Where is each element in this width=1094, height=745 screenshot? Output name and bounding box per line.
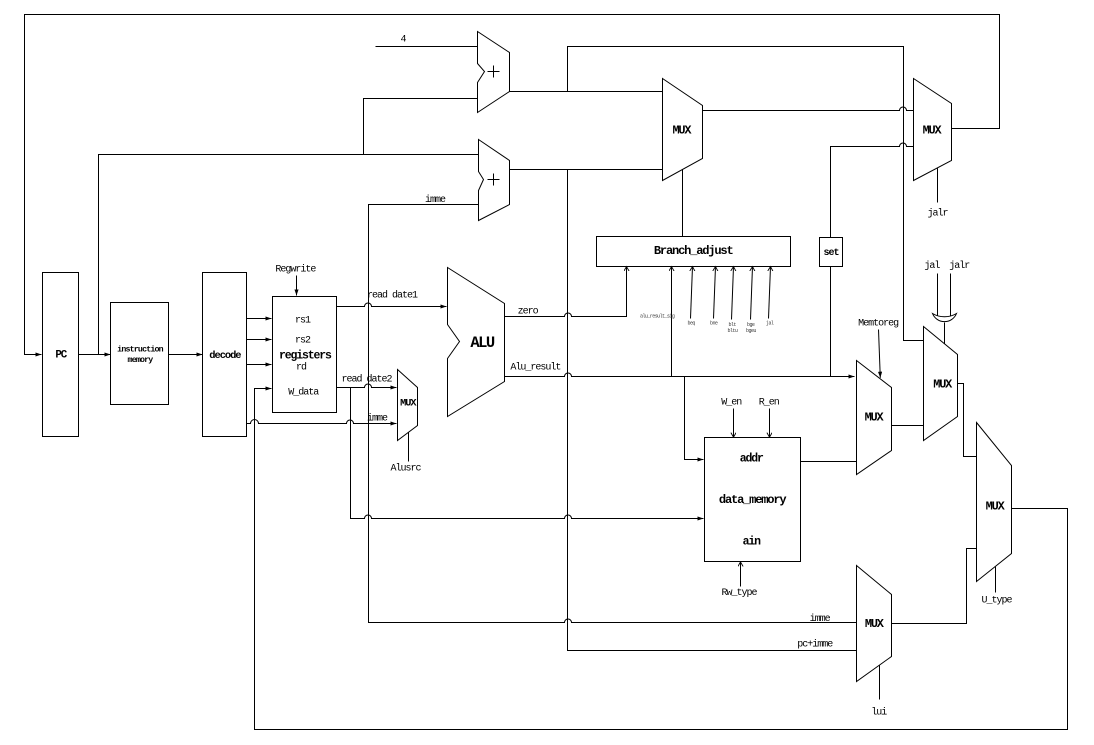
mux ALUsrc: [398, 370, 418, 441]
svg-text:data_memory: data_memory: [719, 493, 787, 507]
svg-text:Rw_type: Rw_type: [722, 588, 758, 599]
wire pc branch to adder A1 input: [364, 99, 478, 155]
svg-text:Regwrite: Regwrite: [275, 264, 316, 276]
wire R_en into data_memory: [769, 409, 771, 438]
svg-text:W_data: W_data: [288, 387, 319, 399]
adder A1 pc+4: [478, 32, 510, 113]
svg-text:jal: jal: [766, 321, 774, 327]
svg-text:Alu_result: Alu_result: [510, 361, 560, 373]
svg-text:Alusrc: Alusrc: [391, 463, 422, 475]
wire jal leader: [937, 274, 939, 317]
wire read date2 tap down to data_memory ain: [351, 388, 704, 519]
svg-text:Branch_adjust: Branch_adjust: [654, 244, 734, 258]
svg-text:memory: memory: [128, 356, 154, 365]
svg-text:MUX: MUX: [933, 378, 953, 392]
wire jalr leader: [950, 274, 952, 317]
mux M2 branch-target: [663, 79, 703, 181]
wire Alusrc select leader: [408, 433, 410, 462]
wire mux M5 output to mux M6: [958, 384, 977, 457]
wire mux M2 select from Branch_adjust: [682, 170, 684, 237]
wire Rw_type into data_memory: [740, 562, 742, 587]
wire pc tap up to adder A2 input: [99, 155, 479, 355]
wire bne into Branch_adjust: [714, 267, 716, 319]
mux M4 Memtoreg: [857, 361, 892, 475]
wire Memtoreg select arrow: [879, 330, 881, 378]
wire U_type select leader: [995, 567, 997, 593]
wire imme from decode to mux ALUsrc: [247, 420, 397, 424]
wire set box down to Alu_result line: [830, 267, 832, 377]
wire W_en into data_memory: [733, 409, 735, 438]
svg-text:rs1: rs1: [295, 315, 311, 326]
wire decode to rd: [247, 364, 272, 366]
svg-text:bne: bne: [710, 321, 718, 327]
svg-text:Memtoreg: Memtoreg: [858, 319, 899, 330]
svg-text:MUX: MUX: [986, 500, 1006, 514]
svg-text:registers: registers: [279, 349, 332, 362]
wire mux M4 output to mux M5: [892, 425, 924, 427]
box PC: [43, 273, 79, 437]
box data_memory: [705, 438, 801, 562]
plus sign A2: [488, 174, 500, 186]
svg-text:rs2: rs2: [295, 336, 311, 347]
wire lui mux output to mux M6: [892, 549, 977, 624]
svg-text:imme: imme: [425, 194, 446, 206]
svg-text:pc+imme: pc+imme: [797, 639, 833, 651]
wire data_memory output to mux M4: [801, 461, 857, 463]
wire jalr-mux output wrap to PC input: [25, 15, 1000, 355]
mux M7 lui: [857, 566, 892, 682]
svg-text:decode: decode: [209, 350, 241, 362]
svg-text:read date2: read date2: [342, 373, 393, 385]
wire pc+imme drop to lui mux M7: [568, 170, 857, 651]
svg-text:zero: zero: [518, 306, 539, 317]
mux M6 U_type: [977, 423, 1012, 582]
svg-text:MUX: MUX: [865, 411, 885, 425]
wire decode to rs1: [247, 318, 272, 320]
wire Alu_result tap down to data_memory addr: [685, 377, 704, 460]
svg-text:jal: jal: [924, 260, 940, 272]
svg-text:set: set: [823, 248, 839, 259]
wire alu_result_sig up to Branch_adjust: [671, 267, 673, 377]
wire zero from ALU to Branch_adjust: [505, 267, 627, 317]
svg-text:R_en: R_en: [759, 398, 780, 409]
wire blt-bltu into Branch_adjust: [732, 267, 734, 320]
svg-text:read date1: read date1: [367, 290, 418, 302]
wire read date1 to ALU: [337, 303, 447, 306]
svg-text:jalr: jalr: [949, 260, 970, 272]
wire mux M2 output to mux M3: [703, 107, 914, 110]
wire Alu_result from ALU to Memtoreg mux M4: [505, 373, 855, 376]
box set: [820, 238, 843, 267]
svg-text:ain: ain: [743, 536, 762, 549]
svg-text:PC: PC: [55, 350, 67, 362]
wire adder A1 output to mux M2: [510, 91, 663, 93]
wire set box up to mux M3: [831, 143, 914, 238]
mux M3 jalr: [914, 79, 952, 181]
box registers: [273, 297, 337, 413]
wire jal into Branch_adjust: [769, 267, 771, 319]
wire constant 4 into adder A1: [376, 46, 478, 48]
ALU U1: [448, 268, 505, 417]
wire write-back: U_type mux output, bottom rail, up to W_data: [255, 389, 1068, 730]
svg-text:alu_result_sig: alu_result_sig: [640, 314, 675, 320]
svg-text:lui: lui: [871, 707, 887, 719]
box instruction memory: [111, 303, 169, 405]
wire bge-bgeu into Branch_adjust: [751, 267, 753, 320]
wire PC to instruction memory: [79, 354, 111, 356]
svg-text:U_type: U_type: [982, 596, 1013, 607]
svg-text:rd: rd: [296, 362, 307, 374]
box Branch_adjust: [597, 237, 791, 267]
svg-text:instruction: instruction: [117, 345, 163, 355]
svg-text:imme: imme: [367, 412, 388, 424]
svg-text:addr: addr: [740, 453, 764, 466]
wire pc+4 riser to jal-jalr mux M5: [568, 47, 924, 341]
svg-text:W_en: W_en: [721, 398, 742, 409]
mux M5 jal-jalr: [924, 327, 958, 441]
wire instruction memory to decode: [169, 354, 203, 356]
wire jalr select leader: [937, 168, 939, 202]
svg-text:MUX: MUX: [400, 397, 417, 409]
plus sign A1: [488, 66, 500, 78]
box decode: [203, 273, 247, 437]
svg-text:imme: imme: [810, 613, 831, 625]
svg-text:jalr: jalr: [928, 208, 949, 220]
svg-text:MUX: MUX: [672, 124, 692, 138]
wire adder A2 output to mux M2: [510, 169, 663, 171]
wire read date2 to mux ALUsrc: [337, 384, 397, 387]
wire or-gate output into mux M5: [944, 323, 946, 344]
svg-text:ALU: ALU: [470, 334, 495, 352]
wire lui select leader: [879, 666, 881, 700]
wire Regwrite into registers: [296, 276, 298, 296]
svg-text:MUX: MUX: [923, 124, 943, 138]
wire beq into Branch_adjust: [691, 267, 693, 319]
svg-text:beq: beq: [688, 321, 696, 327]
svg-text:bgeu: bgeu: [746, 328, 756, 334]
svg-text:MUX: MUX: [865, 617, 885, 631]
wire decode to rs2: [247, 339, 272, 341]
svg-text:bltu: bltu: [728, 328, 738, 334]
adder A2 pc+imme: [479, 140, 510, 221]
wire imme bus vertical to adder A2 and lui mux: [369, 205, 857, 623]
or-gate jal+jalr: [933, 314, 957, 322]
